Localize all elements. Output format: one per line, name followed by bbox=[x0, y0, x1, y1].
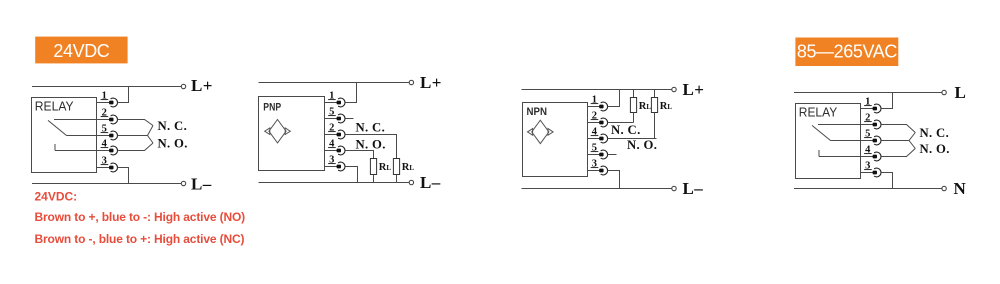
pin 3 K2 contact dot bbox=[873, 171, 877, 175]
svg-text:RL: RL bbox=[660, 101, 673, 112]
svg-text:NPN: NPN bbox=[527, 106, 548, 118]
resistor RL2 (group 2) bottom lead bbox=[396, 175, 398, 183]
pin 1 K2 contact dot bbox=[873, 107, 877, 111]
relay K1 common contact line bbox=[67, 135, 97, 137]
svg-text:N. C.: N. C. bbox=[611, 123, 641, 137]
wire pin4 to resistor RL1 (group 2) bbox=[345, 151, 373, 159]
pin 5 K1 stub wire bbox=[97, 135, 112, 137]
badge 24VDC bbox=[35, 37, 127, 64]
pin 4 K2 socket arc bbox=[874, 152, 881, 161]
svg-text:85—265VAC: 85—265VAC bbox=[797, 41, 898, 61]
resistor RL1 (group 2) top lead bbox=[373, 151, 375, 159]
pin 5 U2 contact dot bbox=[599, 153, 603, 157]
svg-text:24VDC: 24VDC bbox=[53, 41, 109, 61]
pin 3 U1 stub wire bbox=[325, 166, 339, 168]
pin 1 U1 socket arc bbox=[338, 98, 345, 107]
wire L+ rail (group 3) bbox=[522, 89, 672, 91]
pin 4 U2 socket arc bbox=[601, 134, 608, 143]
pin 2 K1 stub wire bbox=[97, 119, 112, 121]
svg-text:RL: RL bbox=[639, 101, 652, 112]
badge 85-265VAC bbox=[795, 38, 898, 67]
wire pin1 to L+ rail (group 1) bbox=[118, 87, 129, 103]
resistor RL1 (group 3) top lead bbox=[633, 90, 635, 98]
pin 1 K1 contact dot bbox=[109, 101, 113, 105]
svg-text:N. O.: N. O. bbox=[627, 138, 657, 152]
pin 2 K2 contact dot bbox=[873, 123, 877, 127]
wire pin5 to N.C. node (group 1) bbox=[118, 126, 153, 136]
svg-text:Brown to +, blue to -: High ac: Brown to +, blue to -: High active (NO) bbox=[35, 210, 246, 224]
pin 2 K1 contact dot bbox=[109, 118, 113, 122]
sensor symbol U1 left chevron bbox=[265, 128, 270, 135]
sensor box U2 (NPN) bbox=[523, 103, 588, 177]
wire pin5 stub (group 2) bbox=[345, 118, 353, 120]
terminal N (group 4) bbox=[942, 186, 946, 190]
pin 5 U1 socket arc bbox=[338, 114, 345, 123]
terminal L- (group 3) bbox=[672, 186, 676, 190]
pin 2 U1 contact dot bbox=[337, 133, 341, 137]
pin 1 K1 socket arc bbox=[111, 98, 118, 107]
svg-text:24VDC:: 24VDC: bbox=[35, 190, 78, 204]
wire pin5 stub (group 3) bbox=[608, 154, 617, 156]
pin 2 K2 socket arc bbox=[874, 120, 881, 129]
relay K1 N.O. contact tick bbox=[54, 144, 56, 151]
sensor symbol U2 right chevron bbox=[548, 129, 553, 136]
wire pin4 to N.O. node (group 1) bbox=[118, 143, 153, 151]
pin 4 K2 stub wire bbox=[861, 156, 875, 158]
wire L rail (group 4) bbox=[794, 92, 942, 94]
pin 3 K1 stub wire bbox=[97, 167, 112, 169]
svg-text:RL: RL bbox=[402, 162, 415, 173]
resistor RL2 (group 2) body bbox=[393, 159, 399, 175]
svg-text:RELAY: RELAY bbox=[799, 106, 838, 120]
pin 3 K2 stub wire bbox=[861, 172, 875, 174]
resistor RL1 (group 2) bottom lead bbox=[373, 175, 375, 183]
wire L- rail (group 2) bbox=[259, 182, 410, 184]
terminal L (group 4) bbox=[942, 90, 946, 94]
relay K1 moving arm bbox=[48, 120, 67, 135]
relay box K1 bbox=[32, 98, 97, 173]
wire pin2 to N.C. node (group 4) bbox=[881, 125, 915, 133]
svg-text:N. C.: N. C. bbox=[920, 126, 950, 140]
resistor RL2 (group 2) top lead bbox=[396, 135, 398, 159]
wire pin3 to L- rail (group 2) bbox=[345, 167, 357, 183]
pin 1 U2 stub wire bbox=[588, 106, 602, 108]
wire L+ rail (group 2) bbox=[259, 82, 410, 84]
pin 4 U2 contact dot bbox=[599, 137, 603, 141]
pin 3 K2 socket arc bbox=[874, 168, 881, 177]
relay K2 N.C. contact line bbox=[818, 124, 861, 126]
svg-text:L+: L+ bbox=[191, 76, 213, 95]
pin 3 U2 stub wire bbox=[588, 170, 602, 172]
resistor RL1 (group 3) bottom lead bbox=[633, 113, 635, 123]
wire pin4 to resistor RL2 (group 3) bbox=[608, 138, 657, 140]
svg-text:RELAY: RELAY bbox=[35, 100, 74, 114]
svg-text:L–: L– bbox=[683, 179, 704, 198]
pin 5 K2 stub wire bbox=[861, 140, 875, 142]
svg-text:N. C.: N. C. bbox=[356, 121, 386, 135]
wire pin1 to L rail (group 4) bbox=[881, 93, 892, 109]
terminal L- (group 1) bbox=[181, 181, 185, 185]
wire pin3 to L- rail (group 1) bbox=[118, 168, 129, 184]
resistor RL1 (group 3) body bbox=[630, 98, 636, 113]
resistor RL1 (group 2) body bbox=[370, 159, 376, 175]
svg-text:L–: L– bbox=[420, 173, 441, 192]
pin 2 U2 contact dot bbox=[599, 121, 603, 125]
wire pin5 to N.O. node (group 1) bbox=[148, 136, 154, 144]
terminal L+ (group 3) bbox=[672, 87, 676, 91]
pin 4 K1 stub wire bbox=[97, 150, 112, 152]
pin 4 U1 contact dot bbox=[337, 149, 341, 153]
sensor symbol U2 (diamond) bbox=[532, 120, 549, 143]
pin 1 K2 stub wire bbox=[861, 108, 875, 110]
relay K1 N.C. contact line bbox=[54, 119, 97, 121]
pin 5 U2 socket arc bbox=[601, 150, 608, 159]
svg-text:L–: L– bbox=[191, 174, 212, 193]
svg-text:PNP: PNP bbox=[263, 102, 281, 114]
pin 1 U1 contact dot bbox=[337, 101, 341, 105]
svg-text:N. O.: N. O. bbox=[158, 137, 188, 151]
pin 2 U1 socket arc bbox=[338, 130, 345, 139]
pin 5 K2 socket arc bbox=[874, 136, 881, 145]
wire pin4 to N.O. node (group 4) bbox=[881, 149, 915, 157]
svg-text:N. C.: N. C. bbox=[158, 119, 188, 133]
wire pin2 to resistor RL1 (group 3) bbox=[608, 122, 634, 124]
svg-text:L+: L+ bbox=[683, 80, 705, 99]
relay K1 N.O. contact line bbox=[55, 150, 97, 152]
resistor RL2 (group 3) body bbox=[651, 98, 657, 113]
pin 5 U1 contact dot bbox=[337, 117, 341, 121]
relay K2 common contact line bbox=[831, 140, 861, 142]
sensor symbol U1 (diamond) bbox=[269, 120, 286, 143]
relay K2 N.O. contact line bbox=[819, 156, 861, 158]
wire L- rail (group 3) bbox=[522, 188, 672, 190]
wire pin1 to L+ rail (group 3) bbox=[608, 90, 620, 107]
pin 3 U2 socket arc bbox=[601, 166, 608, 175]
relay K2 N.O. contact tick bbox=[818, 150, 820, 157]
pin 4 K1 contact dot bbox=[109, 149, 113, 153]
wire pin2 to N.C. node (group 1) bbox=[118, 120, 153, 126]
wire pin2 to resistor RL2 (group 2) bbox=[345, 135, 396, 159]
terminal L+ (group 2) bbox=[409, 80, 413, 84]
pin 5 U2 stub wire bbox=[588, 154, 602, 156]
pin 2 U2 stub wire bbox=[588, 122, 602, 124]
resistor RL2 (group 3) bottom lead bbox=[654, 113, 656, 139]
pin 1 K1 stub wire bbox=[97, 102, 112, 104]
pin 4 K1 socket arc bbox=[111, 146, 118, 155]
wire N rail (group 4) bbox=[794, 188, 942, 190]
pin 2 K2 stub wire bbox=[861, 124, 875, 126]
sensor symbol U1 right chevron bbox=[285, 128, 290, 135]
svg-text:L: L bbox=[955, 83, 967, 102]
wire L- rail (group 1) bbox=[32, 183, 181, 185]
wire pin5 to N.O. node (group 4) bbox=[909, 141, 915, 149]
pin 4 U1 stub wire bbox=[325, 150, 339, 152]
terminal L+ (group 1) bbox=[181, 84, 185, 88]
pin 5 U1 stub wire bbox=[325, 118, 339, 120]
svg-text:Brown to -, blue to +: High ac: Brown to -, blue to +: High active (NC) bbox=[35, 232, 245, 246]
pin 4 U2 stub wire bbox=[588, 138, 602, 140]
svg-text:L+: L+ bbox=[420, 73, 442, 92]
relay box K2 bbox=[796, 104, 861, 179]
pin 5 K1 contact dot bbox=[109, 134, 113, 138]
pin 2 U1 stub wire bbox=[325, 134, 339, 136]
pin 3 U1 socket arc bbox=[338, 162, 345, 171]
svg-text:N. O.: N. O. bbox=[920, 142, 950, 156]
sensor box U1 (PNP) bbox=[259, 97, 325, 171]
terminal L- (group 2) bbox=[409, 180, 413, 184]
pin 4 U1 socket arc bbox=[338, 146, 345, 155]
sensor symbol U2 left chevron bbox=[528, 129, 533, 136]
pin 2 U2 socket arc bbox=[601, 118, 608, 127]
wire L+ rail (group 1) bbox=[32, 86, 181, 88]
pin 1 U2 contact dot bbox=[599, 105, 603, 109]
resistor RL2 (group 3) top lead bbox=[654, 90, 656, 98]
pin 3 U1 contact dot bbox=[337, 165, 341, 169]
pin 5 K2 contact dot bbox=[873, 139, 877, 143]
pin 1 K2 socket arc bbox=[874, 104, 881, 113]
pin 3 K1 contact dot bbox=[109, 166, 113, 170]
relay K2 moving arm bbox=[812, 125, 831, 140]
pin 4 K2 contact dot bbox=[873, 155, 877, 159]
pin 3 U2 contact dot bbox=[599, 169, 603, 173]
svg-text:N: N bbox=[954, 179, 967, 198]
wire pin3 to N rail (group 4) bbox=[881, 173, 892, 189]
pin 5 K1 socket arc bbox=[111, 131, 118, 140]
svg-text:RL: RL bbox=[379, 162, 392, 173]
svg-text:N. O.: N. O. bbox=[356, 137, 386, 151]
wire pin1 to L+ rail (group 2) bbox=[345, 83, 356, 103]
wire pin3 to L- rail (group 3) bbox=[608, 171, 620, 189]
pin 2 K1 socket arc bbox=[111, 115, 118, 124]
pin 3 K1 socket arc bbox=[111, 163, 118, 172]
pin 1 U1 stub wire bbox=[325, 102, 339, 104]
pin 1 U2 socket arc bbox=[601, 102, 608, 111]
wire pin5 to N.C. node (group 4) bbox=[881, 133, 915, 141]
